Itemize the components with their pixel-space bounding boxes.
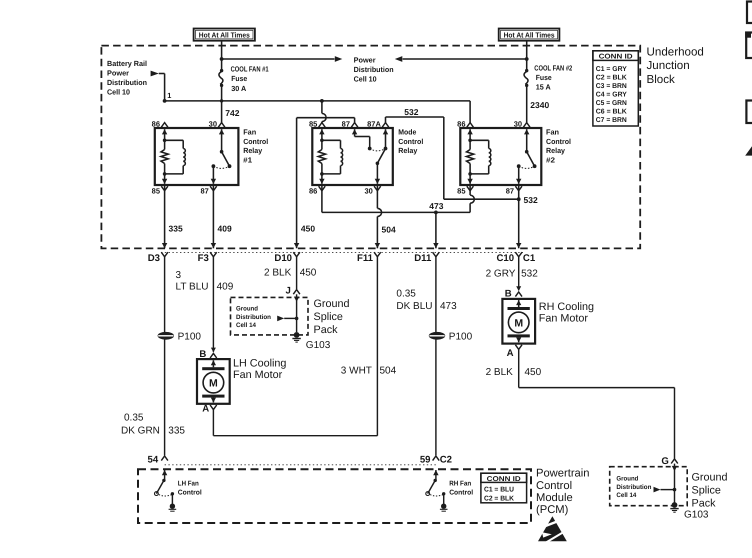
- svg-text:Control: Control: [536, 480, 572, 492]
- mode relay pin 87A: [382, 123, 389, 128]
- connector C10/C1 arrows: [516, 243, 521, 248]
- svg-text:Ground: Ground: [314, 298, 350, 310]
- relay 2 switch (30-87): [524, 129, 529, 134]
- relay 2 pin 30: [523, 123, 530, 128]
- relay 2 coil (86-85): [467, 129, 472, 134]
- conn id table: PCM: [481, 473, 527, 503]
- cut-off icon box 3 (right edge): [746, 101, 752, 124]
- svg-text:G103: G103: [306, 340, 331, 351]
- svg-text:G: G: [661, 456, 668, 467]
- svg-text:Splice: Splice: [692, 484, 721, 496]
- svg-text:Fan: Fan: [546, 127, 559, 136]
- wire: relay 2 pin 85 down to 473 line (hops over 532): [469, 185, 471, 195]
- svg-text:473: 473: [429, 201, 443, 211]
- svg-text:C1: C1: [523, 253, 536, 264]
- ground distribution cell 14 dashed box (right): [610, 467, 688, 506]
- svg-text:Cell 14: Cell 14: [236, 322, 256, 329]
- svg-text:Distribution: Distribution: [354, 65, 394, 74]
- PCM connector row dotted line: [165, 464, 436, 466]
- svg-text:LH Fan: LH Fan: [178, 480, 199, 487]
- svg-text:87: 87: [506, 186, 514, 195]
- svg-text:Ground: Ground: [692, 471, 728, 483]
- svg-text:CONN ID: CONN ID: [487, 476, 521, 483]
- mode relay pin 30: [374, 186, 381, 191]
- relay: Mode Control Relay box: [312, 128, 393, 185]
- svg-text:Fan: Fan: [243, 127, 256, 136]
- svg-text:Control: Control: [243, 137, 268, 146]
- svg-text:Pack: Pack: [314, 324, 339, 336]
- conn id table: underhood junction block: [593, 51, 638, 126]
- LH fan control driver inside PCM: [162, 470, 167, 475]
- svg-text:C2 = BLK: C2 = BLK: [484, 495, 514, 502]
- underhood junction block dashed outline: [101, 46, 640, 249]
- splice G103 (left): [294, 332, 300, 338]
- svg-text:Underhood: Underhood: [647, 46, 704, 59]
- svg-text:D11: D11: [414, 253, 432, 264]
- svg-text:F3: F3: [198, 253, 209, 264]
- wire: C1 down to RH fan motor B (2 GRY 532): [518, 259, 520, 291]
- net 532: mode relay pin 87A over to relay 2 pin 87 / C1: [385, 117, 387, 123]
- svg-text:C6 = BLK: C6 = BLK: [596, 108, 627, 115]
- motor: LH Cooling Fan Motor: [197, 359, 230, 404]
- svg-text:C4 = GRY: C4 = GRY: [596, 92, 627, 99]
- svg-text:30: 30: [364, 186, 372, 195]
- svg-text:504: 504: [380, 365, 397, 376]
- svg-text:RH Fan: RH Fan: [449, 480, 471, 487]
- svg-text:409: 409: [218, 224, 232, 234]
- svg-text:(PCM): (PCM): [536, 504, 569, 516]
- fuse F1: COOL FAN #1 30 A: [220, 69, 223, 72]
- wire: LH motor A around to F11 (3 WHT 504): [212, 410, 214, 436]
- ground distribution cell 14 dashed box (left): [231, 297, 309, 335]
- svg-text:Relay: Relay: [398, 146, 418, 155]
- junction dot: bus to mode relay coil: [320, 99, 324, 103]
- svg-text:Control: Control: [546, 137, 571, 146]
- wire: D11 down to PCM pin 59 (0.35 DK BLU 473): [435, 259, 437, 456]
- svg-text:87A: 87A: [367, 119, 381, 128]
- svg-text:Battery Rail: Battery Rail: [107, 59, 147, 68]
- svg-text:LH Cooling: LH Cooling: [233, 358, 286, 370]
- svg-text:G103: G103: [684, 510, 709, 521]
- relay 1 switch (30-87): [219, 129, 224, 134]
- wire: arrow to Power Distribution Cell 10 (from fuse 1 feed): [220, 57, 224, 61]
- battery rail feed arrow into node 1: [151, 71, 159, 77]
- svg-text:C3 = BRN: C3 = BRN: [596, 83, 627, 90]
- wire: Hot At All Times 1 down to fuse 1: [221, 41, 223, 70]
- mode relay coil (85-86): [319, 129, 324, 134]
- svg-text:504: 504: [382, 225, 396, 235]
- svg-text:Hot At All Times: Hot At All Times: [199, 31, 250, 40]
- svg-text:P100: P100: [178, 332, 202, 343]
- svg-text:Junction: Junction: [647, 59, 690, 72]
- svg-text:85: 85: [309, 119, 317, 128]
- cut-off triangle (right edge): [745, 146, 752, 155]
- wire: F3 down to LH fan motor B (3 LT BLU 409): [212, 259, 214, 352]
- svg-text:30: 30: [514, 119, 522, 128]
- svg-text:1: 1: [167, 91, 171, 100]
- svg-text:Power: Power: [107, 68, 129, 77]
- svg-text:30: 30: [209, 119, 217, 128]
- svg-text:Ground: Ground: [616, 476, 638, 483]
- svg-text:M: M: [514, 317, 523, 329]
- RH fan control driver inside PCM: [433, 470, 438, 475]
- svg-text:C1 = BLU: C1 = BLU: [484, 487, 514, 494]
- svg-text:0.35: 0.35: [396, 289, 416, 300]
- svg-text:C1 = GRY: C1 = GRY: [596, 66, 627, 73]
- cut-off icon box 1 (right edge): [747, 2, 752, 24]
- svg-text:Module: Module: [536, 492, 573, 504]
- connector D3 arrows: [162, 243, 167, 248]
- svg-text:C2 = BLK: C2 = BLK: [596, 75, 627, 82]
- svg-text:#2: #2: [546, 156, 555, 165]
- svg-text:87: 87: [200, 186, 208, 195]
- svg-text:Relay: Relay: [546, 146, 566, 155]
- svg-text:30 A: 30 A: [231, 84, 247, 93]
- relay 2 pin 86: [467, 123, 474, 128]
- wire 335: relay 1 pin 85 to D3: [164, 185, 166, 248]
- inline connector P100 (left): [158, 332, 174, 340]
- svg-text:3: 3: [176, 270, 182, 281]
- wire: D10 down to ground splice pack J (2 BLK 450): [296, 259, 298, 290]
- wire: bus down to relay 2 pin 86: [469, 101, 471, 123]
- svg-text:15 A: 15 A: [536, 83, 552, 92]
- svg-text:532: 532: [521, 269, 538, 280]
- svg-text:0.35: 0.35: [124, 412, 144, 423]
- wire 504: mode relay pin 30 down to F11 (hops over 473 line): [376, 185, 378, 208]
- svg-text:2 BLK: 2 BLK: [486, 367, 514, 378]
- svg-text:Power: Power: [354, 56, 376, 65]
- splice G103 (right): [672, 502, 678, 508]
- svg-text:Control: Control: [398, 137, 423, 146]
- svg-text:M: M: [209, 378, 218, 390]
- svg-text:85: 85: [457, 186, 465, 195]
- wire: relay 2 pin 87 down through C10/C1: [518, 185, 520, 248]
- svg-text:A: A: [202, 403, 209, 414]
- wire 2340: fuse 2 to relay 2 pin 30: [526, 85, 528, 123]
- svg-text:2 BLK: 2 BLK: [264, 267, 292, 278]
- ground distribution reference arrow (right): [654, 487, 661, 493]
- connector F11 arrows: [375, 243, 380, 248]
- cut-off icon box 2 (right edge): [746, 33, 752, 59]
- connector D10 arrows: [294, 243, 299, 248]
- powertrain control module dashed box: [138, 469, 531, 523]
- svg-text:Pack: Pack: [692, 497, 717, 509]
- ESD caution triangle: [538, 516, 567, 541]
- svg-text:87: 87: [342, 119, 350, 128]
- net 450: D10 riser to mode relay pin 87: [296, 118, 298, 249]
- svg-text:Cell 10: Cell 10: [107, 87, 130, 96]
- svg-text:Fuse: Fuse: [536, 73, 552, 82]
- svg-text:Splice: Splice: [314, 311, 343, 323]
- svg-text:D10: D10: [274, 253, 292, 264]
- svg-text:Powertrain: Powertrain: [536, 468, 589, 480]
- svg-text:CONN ID: CONN ID: [599, 54, 633, 61]
- svg-text:RH Cooling: RH Cooling: [539, 301, 594, 313]
- connector F3 arrows: [211, 243, 216, 248]
- svg-text:86: 86: [309, 186, 317, 195]
- net 473: mode relay coil low + relay 2 coil low to D11: [321, 185, 323, 212]
- svg-text:D3: D3: [148, 253, 160, 264]
- svg-text:Cell 10: Cell 10: [354, 75, 377, 84]
- svg-text:86: 86: [457, 119, 465, 128]
- svg-text:85: 85: [152, 186, 160, 195]
- svg-text:Mode: Mode: [398, 127, 416, 136]
- svg-text:Ground: Ground: [236, 306, 258, 313]
- junction dot node 1: [163, 99, 167, 103]
- svg-text:3 WHT: 3 WHT: [341, 365, 372, 376]
- svg-text:C5 = GRN: C5 = GRN: [596, 100, 627, 107]
- svg-text:Distribution: Distribution: [107, 78, 147, 87]
- relay: Fan Control Relay #2 box: [460, 128, 541, 185]
- power label box: Hot At All Times (right): [499, 29, 560, 41]
- svg-text:409: 409: [217, 282, 234, 293]
- svg-text:#1: #1: [243, 156, 252, 165]
- wire: Hot At All Times 2 down to fuse 2: [526, 41, 528, 70]
- mode relay switch (30 to 87A, dashed to 87): [352, 129, 357, 134]
- svg-text:C7 = BRN: C7 = BRN: [596, 117, 627, 124]
- svg-text:J: J: [285, 286, 290, 297]
- svg-text:473: 473: [440, 301, 457, 312]
- svg-text:LT BLU: LT BLU: [176, 282, 209, 293]
- svg-text:C10: C10: [496, 253, 514, 264]
- svg-text:DK GRN: DK GRN: [121, 425, 160, 436]
- svg-text:C2: C2: [440, 455, 452, 466]
- relay 1 pin 87: [210, 186, 217, 191]
- svg-text:Fan Motor: Fan Motor: [233, 369, 283, 381]
- svg-text:Control: Control: [449, 489, 473, 496]
- svg-text:450: 450: [525, 367, 542, 378]
- svg-text:532: 532: [404, 107, 418, 117]
- svg-text:Hot At All Times: Hot At All Times: [504, 31, 555, 40]
- wire: arrow to Power Distribution Cell 10 (from fuse 2 feed): [525, 57, 529, 61]
- fuse F2: COOL FAN #2 15 A: [525, 69, 528, 72]
- svg-text:Fan Motor: Fan Motor: [539, 312, 589, 324]
- wire: RH motor A to ground splice pack G (2 BLK 450): [518, 349, 520, 387]
- svg-text:Block: Block: [647, 73, 676, 86]
- power label box: Hot At All Times (left): [194, 29, 255, 41]
- svg-text:Control: Control: [178, 489, 202, 496]
- svg-text:742: 742: [225, 108, 239, 118]
- relay 2 pin 85: [467, 186, 474, 191]
- svg-text:59: 59: [420, 455, 431, 466]
- svg-text:2 GRY: 2 GRY: [486, 269, 516, 280]
- relay 1 pin 30: [218, 123, 225, 128]
- wire down to splice G103 (right): [674, 490, 676, 503]
- wire: D3 down to PCM pin 54 (0.35 DK GRN 335): [164, 259, 166, 456]
- main feed bus wire: [165, 100, 471, 102]
- svg-text:DK BLU: DK BLU: [396, 301, 432, 312]
- svg-text:335: 335: [169, 224, 183, 234]
- svg-text:Distribution: Distribution: [236, 314, 271, 321]
- svg-text:54: 54: [148, 455, 159, 466]
- svg-text:450: 450: [301, 224, 315, 234]
- svg-text:COOL FAN #1: COOL FAN #1: [231, 65, 269, 74]
- wire 742: fuse 1 to relay 1 pin 30: [221, 85, 223, 123]
- ground distribution reference arrow (left): [277, 316, 284, 322]
- svg-text:532: 532: [524, 195, 538, 205]
- svg-text:Relay: Relay: [243, 146, 263, 155]
- connector row dotted line (junction block bottom): [161, 251, 523, 253]
- connector D11 arrows: [433, 243, 438, 248]
- wire down to splice G103 (left): [296, 318, 298, 332]
- relay 1 coil (86-85): [162, 129, 167, 134]
- svg-text:Distribution: Distribution: [616, 484, 651, 491]
- svg-text:Cell 14: Cell 14: [616, 492, 636, 499]
- svg-text:335: 335: [168, 425, 185, 436]
- inline connector P100 (right): [429, 332, 445, 340]
- svg-text:COOL FAN #2: COOL FAN #2: [534, 63, 572, 72]
- svg-text:2340: 2340: [530, 100, 549, 110]
- svg-text:Fuse: Fuse: [231, 74, 247, 83]
- relay 1 pin 85: [161, 186, 168, 191]
- svg-text:F11: F11: [357, 253, 374, 264]
- svg-text:P100: P100: [449, 332, 473, 343]
- wire: bus down to mode relay pin 85 (hops over 450 line): [321, 101, 323, 114]
- motor: RH Cooling Fan Motor: [502, 299, 535, 344]
- relay 2 pin 87: [515, 186, 522, 191]
- mode relay pin 86: [319, 186, 326, 191]
- relay 1 pin 86: [161, 123, 168, 128]
- mode relay pin 85: [319, 123, 326, 128]
- wire 409: relay 1 pin 87 to F3: [212, 185, 214, 248]
- relay: Fan Control Relay #1 box: [155, 128, 239, 185]
- svg-text:A: A: [507, 348, 514, 359]
- svg-text:450: 450: [300, 267, 317, 278]
- svg-text:86: 86: [152, 119, 160, 128]
- mode relay pin 87: [351, 123, 358, 128]
